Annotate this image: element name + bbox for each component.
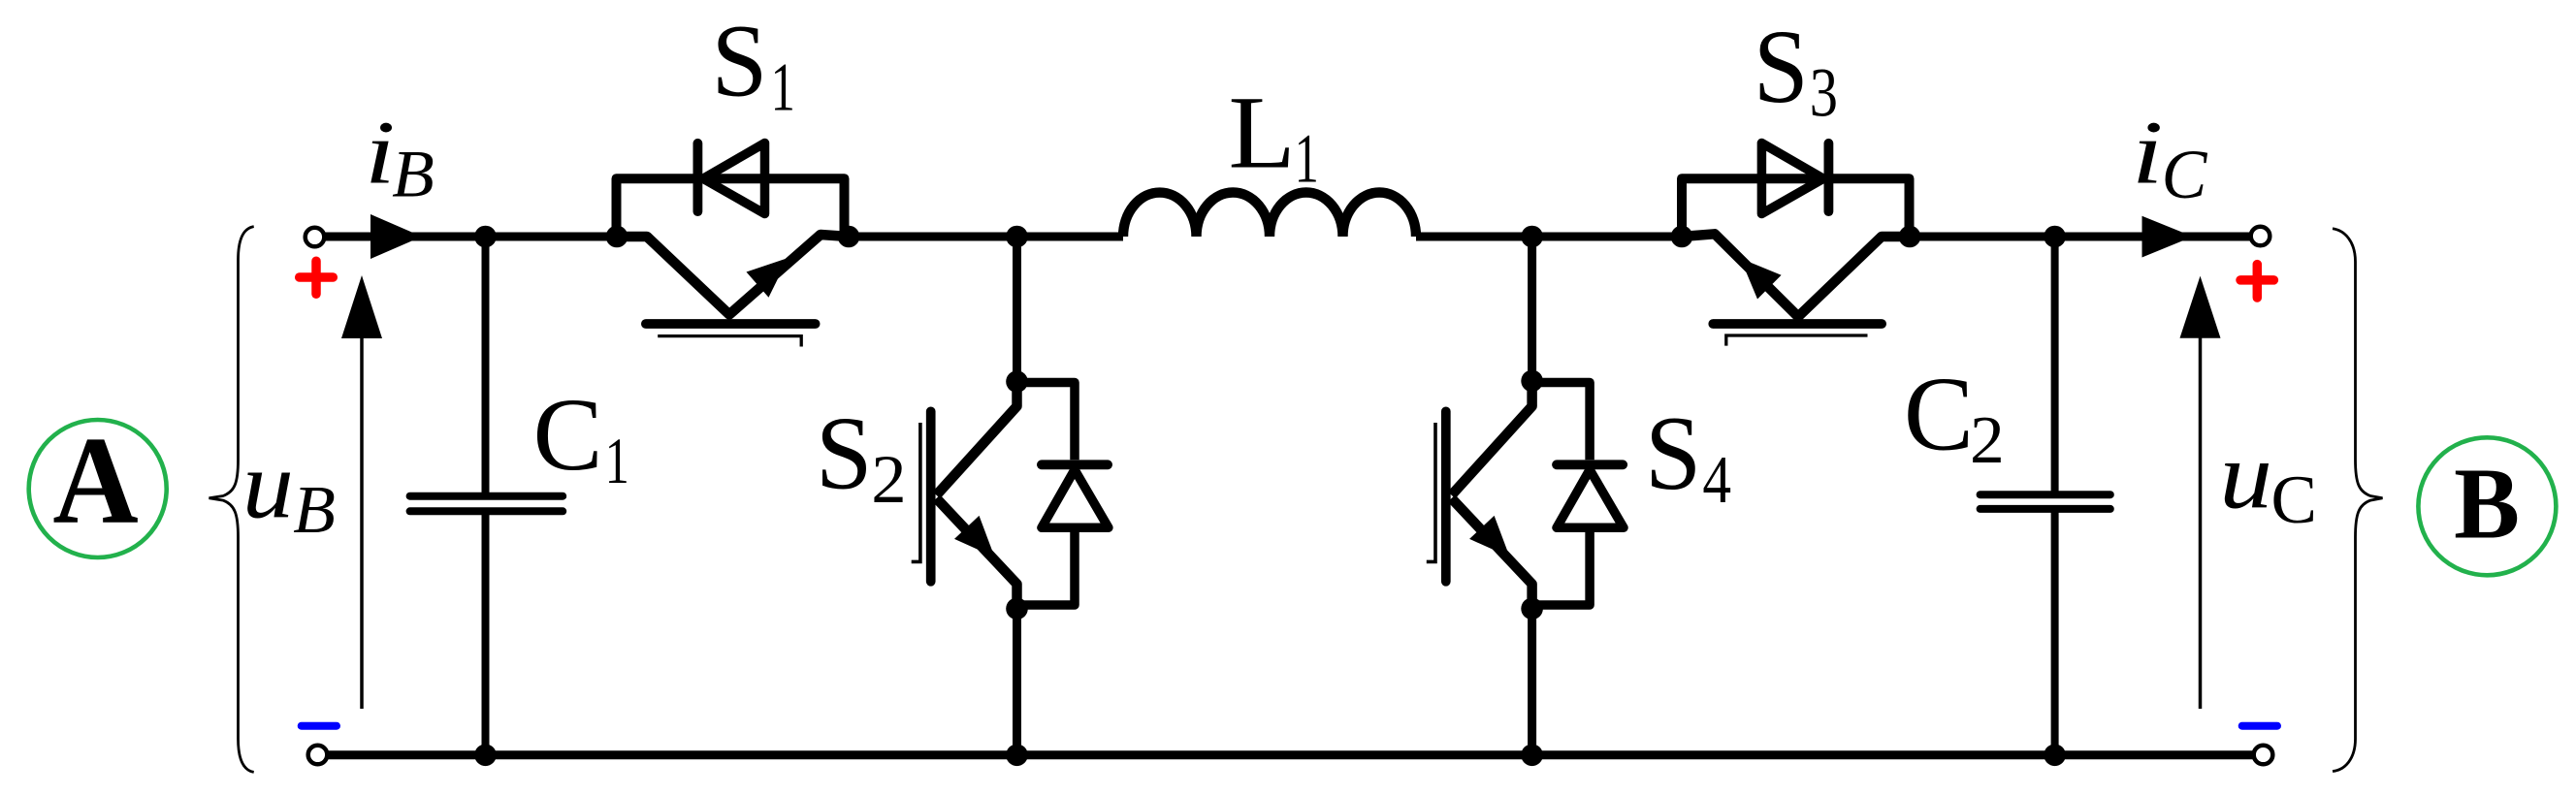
wire top rail S1-to-L1 segment — [849, 233, 1123, 241]
svg-text:C: C — [2270, 462, 2316, 538]
svg-text:A: A — [52, 412, 138, 551]
label L1 — [1228, 75, 1318, 198]
port B circle — [2418, 437, 2556, 575]
node junction C1 top — [474, 226, 497, 248]
svg-text:S: S — [1754, 8, 1809, 124]
terminal top-right — [2251, 227, 2270, 246]
red plus left — [300, 261, 334, 294]
svg-text:3: 3 — [1810, 55, 1838, 132]
capacitor C1 — [410, 237, 563, 755]
svg-text:S: S — [712, 3, 768, 118]
IGBT S3 — [1682, 143, 1910, 346]
antiparallel diode of S4 — [1532, 383, 1624, 606]
wire top rail left segment — [324, 233, 617, 241]
inductor L1 — [1123, 193, 1416, 238]
terminal top-left — [306, 228, 325, 247]
node S4 collector — [1521, 370, 1543, 393]
IGBT S1 — [617, 143, 850, 347]
label S1 — [712, 3, 795, 125]
node junction C2 top — [2044, 226, 2066, 248]
voltage arrow uB — [341, 275, 382, 709]
label S4 — [1645, 396, 1731, 518]
IGBT S4 — [1427, 381, 1532, 609]
blue minus left — [302, 722, 337, 730]
svg-text:S: S — [1645, 396, 1701, 512]
svg-text:B: B — [392, 138, 435, 212]
node S2 emitter — [1006, 598, 1028, 620]
svg-text:i: i — [365, 103, 395, 204]
svg-text:1: 1 — [771, 49, 795, 125]
svg-text:B: B — [2454, 448, 2520, 560]
svg-text:C: C — [1904, 355, 1974, 473]
svg-text:S: S — [816, 396, 873, 511]
node junction S4 top rail — [1521, 226, 1543, 248]
svg-text:u: u — [2219, 422, 2272, 528]
current arrow iC — [2142, 216, 2194, 258]
port A circle — [29, 412, 167, 557]
svg-text:C: C — [2162, 136, 2208, 213]
node junction S4 bottom rail — [1521, 745, 1543, 767]
label C1 — [533, 377, 629, 496]
red plus right — [2240, 265, 2273, 298]
svg-text:1: 1 — [1295, 121, 1319, 198]
current arrow iB — [370, 214, 422, 259]
label uC — [2219, 422, 2317, 538]
terminal bottom-left — [308, 746, 328, 765]
svg-text:C: C — [533, 377, 603, 492]
antiparallel diode of S2 — [1017, 383, 1109, 606]
label C2 — [1904, 355, 2005, 478]
terminal bottom-right — [2254, 746, 2273, 765]
wire S4 column upper — [1528, 237, 1536, 381]
svg-text:2: 2 — [1970, 403, 2005, 478]
node S3 left — [1671, 226, 1693, 248]
svg-text:i: i — [2132, 102, 2164, 203]
left brace for port A — [209, 227, 254, 773]
wire S2 column upper — [1013, 237, 1021, 382]
node junction S2 bottom rail — [1006, 745, 1028, 767]
node junction C2 bottom — [2044, 745, 2066, 767]
node S1 left — [606, 226, 628, 248]
wire top rail right segment — [1910, 233, 2251, 241]
label S2 — [816, 396, 907, 518]
capacitor C2 — [1980, 237, 2110, 755]
svg-text:4: 4 — [1702, 442, 1731, 518]
svg-text:B: B — [293, 473, 336, 548]
node S4 emitter — [1521, 598, 1543, 620]
svg-text:2: 2 — [871, 442, 906, 518]
label S3 — [1754, 8, 1838, 132]
label uB — [242, 432, 336, 548]
blue minus right — [2242, 722, 2277, 730]
wire S4 column lower — [1528, 609, 1536, 755]
right brace for port B — [2333, 229, 2383, 772]
node junction S2 top rail — [1006, 226, 1028, 248]
label iB — [365, 103, 435, 212]
voltage arrow uC — [2180, 276, 2221, 709]
wire top rail L1-to-S3 segment — [1416, 233, 1682, 241]
wire S2 column lower — [1013, 609, 1021, 755]
svg-text:L: L — [1228, 75, 1295, 189]
wire bottom rail — [327, 750, 2253, 759]
node S3 right — [1899, 226, 1921, 248]
node S2 collector — [1006, 370, 1028, 393]
label iC — [2132, 102, 2208, 214]
svg-text:u: u — [242, 432, 294, 539]
IGBT S2 — [912, 382, 1017, 609]
node junction C1 bottom — [474, 745, 497, 767]
node S1 right — [838, 226, 860, 248]
svg-text:1: 1 — [605, 425, 629, 497]
